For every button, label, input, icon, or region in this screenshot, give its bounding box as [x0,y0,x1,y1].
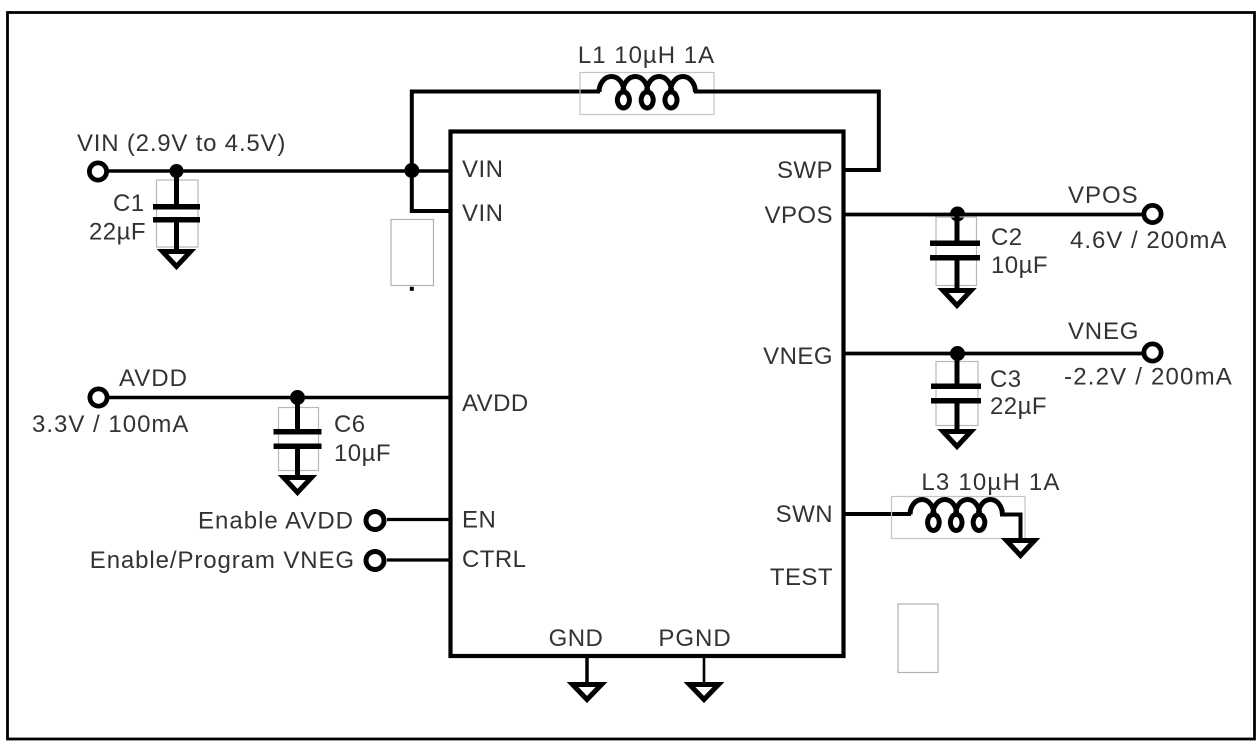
node EN terminal [366,512,384,530]
wire EN terminal to EN pin [387,518,451,521]
svg-text:C6: C6 [334,411,366,438]
svg-text:VNEG: VNEG [763,343,833,370]
wire VIN node to second VIN pin [412,171,451,212]
svg-text:VPOS: VPOS [1068,182,1139,209]
svg-text:TEST: TEST [770,564,833,591]
svg-text:AVDD: AVDD [462,390,529,417]
svg-text:AVDD: AVDD [119,365,188,392]
wire VPOS pin to output terminal [844,213,1145,217]
wire CTRL terminal to CTRL pin [387,558,451,561]
svg-text:VIN: VIN [462,200,503,227]
junction C1 tap [170,164,184,178]
inductor L3 [892,497,1026,539]
ground C3 [943,432,971,447]
svg-text:CTRL: CTRL [462,546,526,573]
svg-text:VPOS: VPOS [765,202,834,229]
node VIN input terminal [89,163,106,180]
svg-text:Enable AVDD: Enable AVDD [198,508,354,535]
capacitor C2 [930,214,980,289]
node AVDD input terminal [90,389,107,406]
svg-text:10µF: 10µF [334,440,391,467]
node VPOS output terminal [1144,205,1161,222]
inductor L1 [580,73,714,115]
wire PGND pin stub [703,656,706,683]
IC U1 body [451,132,844,657]
wire VNEG pin to output terminal [844,352,1145,356]
svg-text:SWP: SWP [777,157,833,184]
capacitor C6 [274,398,322,477]
svg-text:C3: C3 [990,366,1022,393]
ground GND [573,685,602,700]
node VNEG output terminal [1144,344,1161,361]
svg-text:10µF: 10µF [991,252,1048,279]
svg-text:VIN (2.9V to 4.5V): VIN (2.9V to 4.5V) [77,130,286,157]
wire VIN node up-over loop to L1 [412,92,600,171]
capacitor C1 [153,171,200,250]
svg-text:Enable/Program VNEG: Enable/Program VNEG [90,547,355,574]
svg-text:-2.2V / 200mA: -2.2V / 200mA [1064,364,1233,391]
svg-text:C1: C1 [113,190,145,217]
junction C3 tap [950,346,965,361]
wire L3 to ground [1000,515,1021,540]
svg-text:L1 10µH 1A: L1 10µH 1A [578,42,715,69]
svg-text:22µF: 22µF [990,393,1047,420]
svg-text:L3 10µH 1A: L3 10µH 1A [921,469,1060,496]
ground C2 [943,291,971,306]
svg-text:EN: EN [462,507,496,534]
svg-text:GND: GND [549,625,604,652]
placeholder grey box near VIN pin [391,220,434,286]
junction VIN node [404,163,419,178]
svg-text:VIN: VIN [462,156,503,183]
svg-text:PGND: PGND [658,625,731,652]
junction C2 tap [950,207,965,222]
svg-text:4.6V / 200mA: 4.6V / 200mA [1070,227,1227,254]
wire L1 to SWP pin [694,92,879,171]
ground C1 [163,252,191,267]
svg-text:VNEG: VNEG [1068,318,1139,345]
ground L3 [1007,541,1035,556]
ground C6 [284,478,312,493]
junction C6 tap [290,390,305,405]
placeholder grey box bottom right [898,604,938,673]
svg-text:22µF: 22µF [89,219,146,246]
dot mark [410,287,414,291]
svg-text:C2: C2 [991,224,1023,251]
capacitor C3 [931,354,981,431]
ground PGND [690,685,719,700]
wire GND pin stub [585,656,589,683]
wire AVDD terminal to AVDD pin [108,396,451,399]
svg-text:3.3V / 100mA: 3.3V / 100mA [32,411,189,438]
node CTRL terminal [366,552,384,570]
wire VIN terminal to IC VIN pin [108,169,451,172]
wire SWN pin to L3 [844,512,912,516]
svg-text:SWN: SWN [776,501,833,528]
